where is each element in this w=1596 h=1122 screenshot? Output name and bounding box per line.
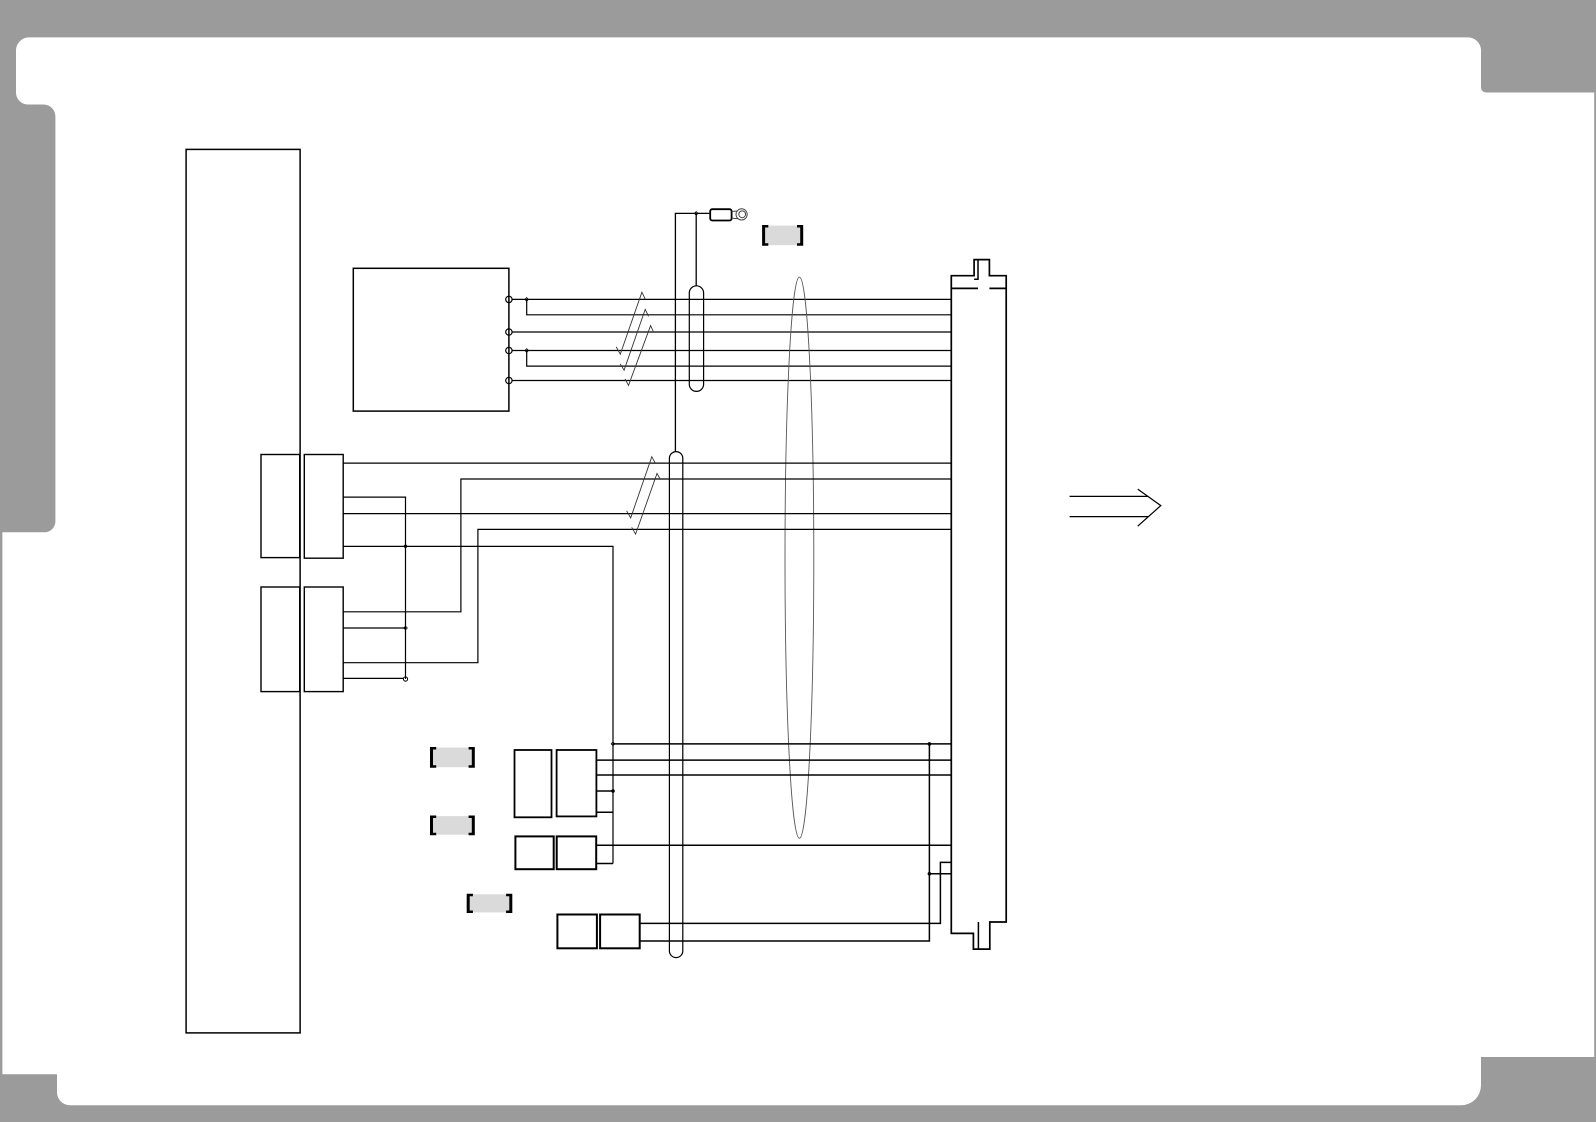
ring terminal neck <box>732 211 738 219</box>
main board rectangle <box>186 149 300 1033</box>
twist mark T3 <box>625 326 653 386</box>
relay box P1 left <box>515 750 552 817</box>
wire W5 branch drop <box>527 351 952 367</box>
part label L2 <box>430 816 475 836</box>
twist mark T5 <box>632 474 661 535</box>
cable clamp F1 (stadium) <box>689 286 703 392</box>
CN1 bottom key detail <box>977 922 979 949</box>
wire W20 P2 to CN1 <box>596 844 951 846</box>
part label L3 <box>467 894 513 913</box>
wire W13 CN3 to V3 <box>343 627 405 629</box>
connector CN1 body <box>951 260 1006 950</box>
wire W7 CN2 to CN1 <box>343 462 951 464</box>
switch box P3 right <box>600 915 640 949</box>
wire W14 CN3 to V3 <box>343 677 403 679</box>
junction diamond on ground lead <box>694 212 698 216</box>
connector pair CN2 harness-side <box>304 455 343 559</box>
wire W21 P2 to V2 <box>596 863 613 865</box>
wire W1 pin1 to CN1 <box>512 298 951 300</box>
wire W19 P1 to V2 <box>596 811 613 813</box>
switch box P2 right <box>557 836 597 869</box>
ground lead wire <box>675 213 709 451</box>
junction diamond V3b <box>404 626 408 630</box>
CN1 top key detail <box>974 260 978 280</box>
wire W17 P1 to CN1 <box>596 774 951 776</box>
box U1 (top unit) <box>353 268 509 411</box>
wire W18 P1 to V2 <box>596 790 613 792</box>
drop wire to clamp F1 <box>695 213 697 285</box>
ring terminal body <box>710 209 731 220</box>
wire W24 V1 to CN1 <box>929 873 951 875</box>
relay box P1 right <box>557 750 597 816</box>
part label L1 <box>430 747 475 768</box>
junction circle V3c <box>403 677 407 681</box>
wire W22 P3 to CN1 <box>640 862 952 923</box>
pin circle U1-2 <box>506 329 512 335</box>
junction diamond V3a <box>404 545 408 549</box>
junction dot W15/V1 <box>928 742 932 746</box>
wire W8 riser V4 to CN1 <box>343 479 951 612</box>
wire W3 pin2 to CN1 <box>512 331 951 333</box>
pin circle U1-4 <box>506 377 512 383</box>
wire W9 CN2 to node V3 <box>343 497 405 679</box>
connector pair CN2 board-side <box>261 455 300 558</box>
wire W11 riser V5 to CN1 <box>343 529 951 662</box>
wire W23 P3 up V1 <box>640 744 930 941</box>
junction diamond on V2 <box>611 742 615 746</box>
wire W10 CN2 to CN1 <box>343 513 951 515</box>
wire W2 branch drop <box>527 299 952 314</box>
junction diamond on W4 <box>525 349 529 353</box>
wire W12 CN2 down riser V2 <box>343 546 613 863</box>
connector pair CN3 harness-side <box>304 587 343 692</box>
twist mark T2 <box>620 309 648 370</box>
flow arrow <box>1070 489 1161 526</box>
pin circle U1-3 <box>506 347 512 353</box>
junction dot V2 lower <box>611 789 615 793</box>
cable bundle ellipse <box>785 277 814 838</box>
wire W16 P1 to CN1 <box>596 759 951 761</box>
ring terminal ring <box>736 209 747 220</box>
ring terminal hole <box>739 211 746 218</box>
cable fold loop (long stadium) <box>669 452 682 958</box>
switch box P2 left <box>515 836 553 869</box>
twist mark T1 <box>616 292 645 354</box>
twist mark T4 <box>627 457 655 518</box>
junction dot V1 branch <box>928 872 932 876</box>
pin circle U1-1 <box>506 296 512 302</box>
part label L0 <box>762 225 803 246</box>
wire W4 pin3 to CN1 <box>512 350 951 352</box>
CN1 cap line <box>951 287 1006 289</box>
wire W15 V2 to CN1 <box>613 743 951 745</box>
wire W6 pin4 to CN1 <box>512 380 951 382</box>
junction diamond on W1 <box>525 298 529 302</box>
switch box P3 left <box>557 915 597 949</box>
connector pair CN3 board-side <box>261 587 300 692</box>
